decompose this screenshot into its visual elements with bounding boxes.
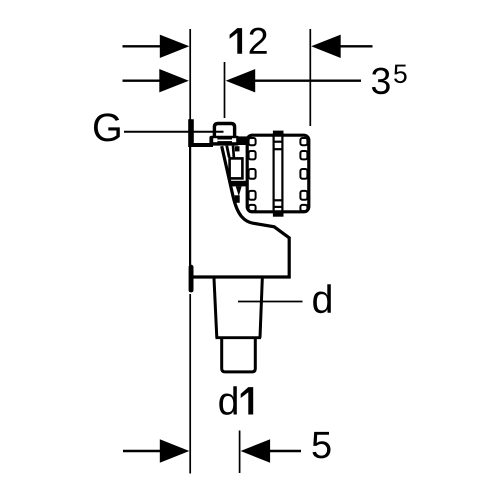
cartridge top tab <box>273 131 284 136</box>
leader line G <box>124 131 224 133</box>
cartridge left ribs <box>249 138 256 211</box>
outlet pipe d right edge <box>260 279 262 338</box>
cartridge body <box>247 135 309 212</box>
dim arrow bottom right head <box>241 439 271 462</box>
dim arrow row1 left head <box>160 35 190 58</box>
extension line V1 bottom (wall line, lower) <box>189 294 191 474</box>
wall plate foot <box>189 265 194 293</box>
dim label 3 <box>372 68 390 95</box>
dim label 12 <box>230 28 243 54</box>
dim arrow row2 right tail <box>255 79 362 81</box>
extension line V4 (5 dim right) <box>239 431 241 474</box>
extension line V3 (12 dim right) <box>309 29 311 126</box>
valve body rect <box>230 158 243 178</box>
outlet pipe d left edge <box>214 279 217 338</box>
cartridge band bottom marks <box>274 199 283 201</box>
dim label 5 <box>313 432 331 459</box>
flange-cartridge connector <box>237 136 248 145</box>
cartridge band right line <box>281 134 283 213</box>
cartridge band top marks <box>274 141 283 143</box>
leader line d <box>238 301 303 303</box>
wall plate thin line <box>189 119 191 267</box>
label d <box>313 284 331 313</box>
dim arrow bottom left head <box>160 439 190 462</box>
valve flange <box>209 136 239 146</box>
cartridge bottom tab <box>273 212 284 217</box>
dim arrow bottom right tail <box>270 450 302 452</box>
dim arrow row1 right head <box>311 35 341 58</box>
housing outline <box>191 146 289 277</box>
flange slot bar <box>217 140 232 142</box>
dim arrow row1 right tail <box>340 45 373 47</box>
flange slot right <box>232 138 236 142</box>
dim label superscript 5 <box>394 65 407 84</box>
valve neck stub <box>235 146 240 151</box>
dim arrow row2 left head <box>159 69 189 92</box>
dim arrow bottom left tail <box>123 450 164 452</box>
outlet pipe d bottom rim <box>216 336 262 339</box>
flange slot left <box>213 138 217 142</box>
dim arrow row2 right head <box>226 69 256 92</box>
wall bracket L <box>188 119 213 147</box>
valve neck right <box>232 146 236 158</box>
valve neck left <box>225 146 230 158</box>
valve lower band <box>230 181 247 187</box>
valve stem block <box>235 195 240 203</box>
dim arrow row1 left tail <box>123 45 164 47</box>
extension line V1 top (wall line, upper) <box>189 29 191 119</box>
outlet pipe d1 <box>222 338 256 372</box>
extension line V2 (3.5 dim) <box>224 62 226 118</box>
label d1 <box>219 386 237 415</box>
label G <box>94 113 120 141</box>
dim arrow row2 left tail <box>123 79 164 81</box>
union nut cap <box>214 124 234 138</box>
cartridge right ribs <box>300 138 307 211</box>
valve dart <box>236 186 242 196</box>
cartridge band left line <box>273 134 275 213</box>
